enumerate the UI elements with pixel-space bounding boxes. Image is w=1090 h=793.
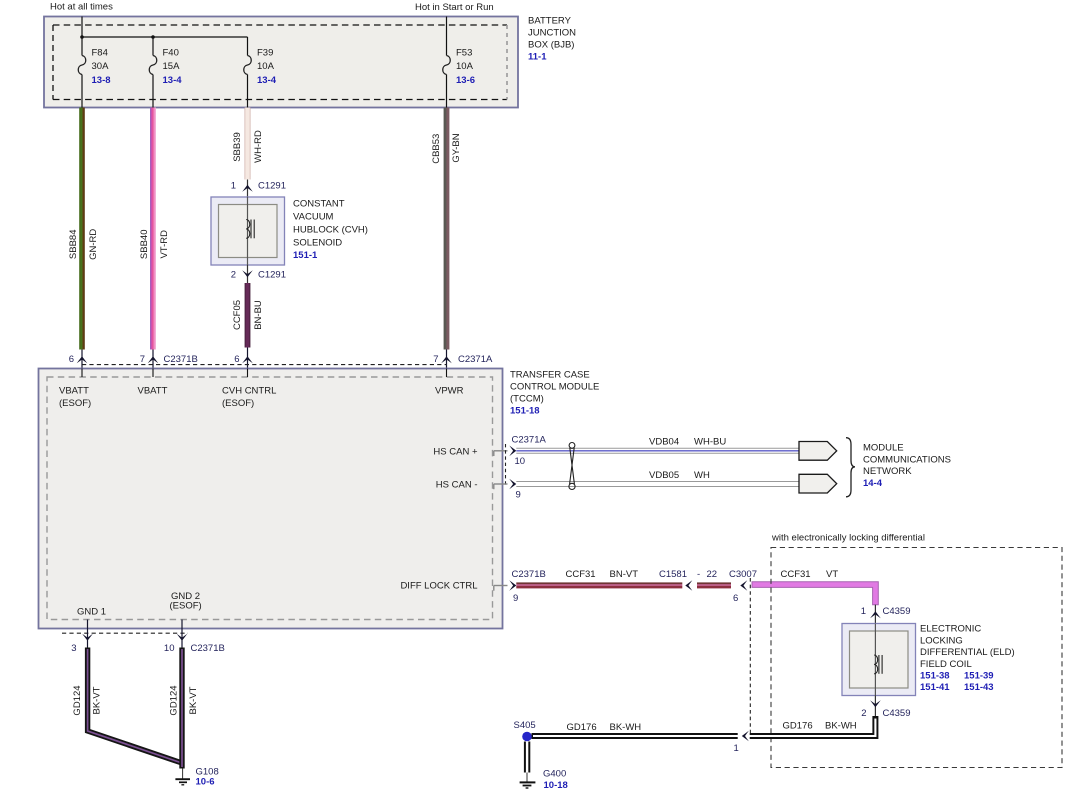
fuse F40 [149, 56, 157, 75]
svg-text:30A: 30A [92, 61, 110, 72]
svg-text:BK-VT: BK-VT [188, 686, 199, 714]
svg-text:(ESOF): (ESOF) [59, 398, 91, 409]
pin stub VBATT [152, 369, 154, 378]
svg-text:11-1: 11-1 [528, 51, 547, 62]
svg-text:C3007: C3007 [729, 569, 757, 580]
svg-text:F39: F39 [257, 48, 273, 59]
connector label C1581 - 22 [659, 569, 717, 580]
connector C2371B pin 7 arrow [140, 350, 198, 369]
svg-text:2: 2 [231, 270, 236, 281]
svg-text:1: 1 [734, 743, 739, 754]
wire GD124 BK-VT right [168, 648, 199, 769]
svg-text:10-18: 10-18 [544, 780, 568, 791]
svg-text:MODULE: MODULE [863, 443, 904, 454]
svg-text:LOCKING: LOCKING [920, 635, 963, 646]
svg-text:WH-RD: WH-RD [253, 130, 264, 163]
wire SBB40 VT-RD [150, 108, 156, 350]
svg-text:NETWORK: NETWORK [863, 466, 912, 477]
svg-text:151-43: 151-43 [964, 682, 994, 693]
svg-text:2: 2 [861, 708, 866, 719]
svg-text:Hot in Start or Run: Hot in Start or Run [415, 2, 494, 13]
svg-text:(TCCM): (TCCM) [510, 394, 544, 405]
wire CBB53 GY-BN [444, 108, 450, 350]
svg-text:3: 3 [71, 643, 76, 654]
svg-text:GY-BN: GY-BN [451, 133, 462, 162]
ELD label [920, 624, 1015, 694]
BJB label [528, 16, 576, 63]
svg-text:C1291: C1291 [258, 181, 286, 192]
svg-text:HUBLOCK (CVH): HUBLOCK (CVH) [293, 224, 368, 235]
module TCCM box [39, 369, 503, 629]
svg-text:VT: VT [826, 569, 838, 580]
svg-text:COMMUNICATIONS: COMMUNICATIONS [863, 454, 951, 465]
svg-text:GND 1: GND 1 [77, 607, 106, 618]
svg-text:F53: F53 [456, 48, 472, 59]
wire bus [82, 36, 248, 38]
svg-text:VDB04: VDB04 [649, 437, 679, 448]
wire GD176 BK-WH right [532, 716, 876, 736]
svg-text:F84: F84 [92, 48, 108, 59]
svg-text:BN-BU: BN-BU [253, 300, 264, 330]
connector C1581 pin 22 arrow [685, 580, 692, 591]
pin label GND 2 (ESOF) [170, 591, 202, 612]
svg-text:13-4: 13-4 [257, 75, 277, 86]
connector C2371A dashed line [505, 444, 507, 486]
pin stub CVH CNTRL [247, 369, 249, 378]
svg-text:7: 7 [433, 354, 438, 365]
svg-text:BK-WH: BK-WH [610, 722, 642, 733]
battery junction box BJB [44, 17, 518, 108]
svg-text:BATTERY: BATTERY [528, 16, 572, 27]
svg-text:1: 1 [861, 606, 866, 617]
wire CCF31 BN-VT [516, 569, 682, 588]
svg-text:C1291: C1291 [258, 270, 286, 281]
wire C1581 to C3007 [697, 582, 731, 588]
svg-text:CVH CNTRL: CVH CNTRL [222, 386, 276, 397]
svg-text:C2371B: C2371B [164, 354, 198, 365]
network label [863, 443, 951, 489]
svg-text:VPWR: VPWR [435, 386, 464, 397]
connector line top [82, 364, 447, 366]
solenoid CVH box [211, 197, 285, 265]
coil ELD field coil box [842, 624, 916, 696]
svg-text:BN-VT: BN-VT [610, 569, 639, 580]
svg-text:SBB84: SBB84 [68, 230, 79, 260]
svg-text:ELECTRONIC: ELECTRONIC [920, 624, 981, 635]
svg-text:151-1: 151-1 [293, 250, 318, 261]
svg-text:G400: G400 [543, 769, 566, 780]
connector C2371A pin 9 [494, 479, 521, 501]
fuse F39 [244, 56, 252, 75]
wire drop F40 [152, 37, 154, 56]
dashed option box [771, 548, 1062, 768]
svg-text:WH-BU: WH-BU [694, 437, 726, 448]
svg-text:10A: 10A [257, 61, 275, 72]
svg-text:10A: 10A [456, 61, 474, 72]
svg-text:WH: WH [694, 470, 710, 481]
junction dot [80, 35, 84, 39]
coil ELD winding symbol [874, 655, 882, 674]
pin stub VPWR [446, 369, 448, 378]
svg-text:1: 1 [231, 181, 236, 192]
fuse F53 [443, 56, 451, 75]
svg-text:10: 10 [164, 643, 175, 654]
fuse F84 [78, 56, 86, 75]
TCCM label [510, 370, 599, 417]
svg-text:CCF31: CCF31 [781, 569, 811, 580]
svg-text:F40: F40 [163, 48, 179, 59]
wire GD124 BK-VT left [72, 648, 182, 764]
svg-text:10: 10 [515, 456, 526, 467]
svg-text:13-4: 13-4 [163, 75, 183, 86]
splice S405 [514, 720, 536, 742]
svg-text:CONTROL MODULE: CONTROL MODULE [510, 382, 599, 393]
connector C2371A pin 10 [494, 435, 547, 467]
svg-text:C2371A: C2371A [458, 354, 493, 365]
wire GD176 BK-WH left labels [567, 722, 642, 733]
svg-text:VBATT: VBATT [59, 386, 89, 397]
svg-text:C4359: C4359 [883, 606, 911, 617]
wire VDB04 WH-BU [516, 437, 799, 454]
svg-text:JUNCTION: JUNCTION [528, 27, 576, 38]
svg-text:BOX (BJB): BOX (BJB) [528, 39, 574, 50]
svg-text:151-18: 151-18 [510, 406, 540, 417]
svg-text:7: 7 [140, 354, 145, 365]
svg-text:C2371A: C2371A [512, 435, 547, 446]
svg-text:C1581: C1581 [659, 569, 687, 580]
connector C2371B pin 3 [71, 620, 93, 654]
svg-text:DIFFERENTIAL (ELD): DIFFERENTIAL (ELD) [920, 647, 1015, 658]
svg-text:151-38: 151-38 [920, 671, 950, 682]
wire feed F53 [446, 17, 448, 56]
connector C2371B pin 9 diff lock [494, 569, 546, 604]
connector C1291 pin 2 [231, 265, 286, 283]
ground G400 [520, 742, 568, 791]
svg-text:GN-RD: GN-RD [88, 229, 99, 260]
svg-text:-: - [697, 569, 700, 580]
wire SBB84 GN-RD [79, 108, 85, 350]
connector C4359 pin 1 [861, 605, 911, 624]
pin stub VBATT ESOF [81, 369, 83, 378]
wire feed F84 [81, 17, 83, 56]
svg-text:10-6: 10-6 [196, 776, 215, 787]
connector C4359 pin 2 [861, 696, 910, 719]
junction dot [151, 35, 155, 39]
svg-text:TRANSFER CASE: TRANSFER CASE [510, 370, 590, 381]
wire SBB39 WH-RD [245, 108, 251, 180]
svg-text:SOLENOID: SOLENOID [293, 237, 342, 248]
svg-text:BK-WH: BK-WH [825, 720, 857, 731]
CVH label [293, 199, 368, 262]
svg-text:VBATT: VBATT [138, 386, 168, 397]
svg-text:6: 6 [733, 593, 738, 604]
svg-text:22: 22 [707, 569, 718, 580]
svg-text:VDB05: VDB05 [649, 470, 679, 481]
connector C3007 pin 6 arrow [729, 569, 757, 604]
coil CVH solenoid [246, 220, 254, 239]
svg-text:S405: S405 [514, 720, 536, 731]
connector C3007 pin 1 arrow [734, 730, 750, 754]
svg-text:13-8: 13-8 [92, 75, 111, 86]
svg-text:HS CAN +: HS CAN + [433, 447, 478, 458]
svg-text:14-4: 14-4 [863, 478, 883, 489]
svg-text:with electronically locking di: with electronically locking differential [771, 532, 925, 543]
pin label VBATT (ESOF) [59, 386, 91, 410]
connector C2371B pin 6 arrow [69, 350, 88, 369]
svg-text:9: 9 [516, 489, 521, 500]
svg-text:CCF05: CCF05 [232, 300, 243, 330]
svg-text:C2371B: C2371B [512, 569, 546, 580]
svg-text:151-41: 151-41 [920, 682, 950, 693]
svg-text:C4359: C4359 [883, 708, 911, 719]
svg-text:9: 9 [513, 593, 518, 604]
svg-text:BK-VT: BK-VT [91, 686, 102, 714]
wire VDB05 WH [516, 470, 799, 487]
svg-text:15A: 15A [163, 61, 181, 72]
connector C2371A pin 7 arrow [433, 350, 493, 369]
svg-text:6: 6 [69, 354, 74, 365]
svg-text:VACUUM: VACUUM [293, 212, 334, 223]
pin label CVH CNTRL (ESOF) [222, 386, 276, 410]
wire CCF31 VT [752, 569, 878, 605]
connector C1291 pin 1 [231, 180, 286, 198]
svg-text:GD124: GD124 [168, 685, 179, 715]
svg-text:Hot at all times: Hot at all times [50, 1, 113, 12]
connector C2371B pin 10 [164, 620, 225, 654]
ground G108 [175, 766, 218, 787]
svg-text:VT-RD: VT-RD [159, 230, 170, 259]
connector terminal VDB04 [799, 442, 837, 461]
svg-text:DIFF LOCK CTRL: DIFF LOCK CTRL [400, 580, 477, 591]
wire CCF05 BN-BU [245, 283, 251, 348]
svg-text:151-39: 151-39 [964, 671, 994, 682]
svg-text:GD176: GD176 [567, 722, 597, 733]
svg-text:CCF31: CCF31 [566, 569, 596, 580]
brace [846, 438, 855, 497]
connector C2371B bottom dashed line [62, 632, 188, 634]
twisted pair symbol [569, 443, 575, 490]
svg-text:CONSTANT: CONSTANT [293, 199, 345, 210]
connector C2371A pin 6 arrow [234, 348, 253, 369]
svg-text:6: 6 [234, 354, 239, 365]
svg-text:13-6: 13-6 [456, 75, 475, 86]
connector C3007 dashed line [749, 578, 751, 734]
svg-text:GD124: GD124 [72, 685, 83, 715]
svg-text:SBB39: SBB39 [232, 132, 243, 162]
svg-text:CBB53: CBB53 [431, 134, 442, 164]
connector terminal VDB05 [799, 474, 837, 493]
svg-text:FIELD COIL: FIELD COIL [920, 659, 972, 670]
svg-text:(ESOF): (ESOF) [222, 398, 254, 409]
svg-text:HS CAN -: HS CAN - [436, 480, 478, 491]
svg-text:C2371B: C2371B [191, 643, 225, 654]
svg-text:SBB40: SBB40 [139, 230, 150, 260]
svg-text:GD176: GD176 [783, 720, 813, 731]
svg-text:(ESOF): (ESOF) [170, 600, 202, 611]
wire drop F39 [247, 37, 249, 56]
